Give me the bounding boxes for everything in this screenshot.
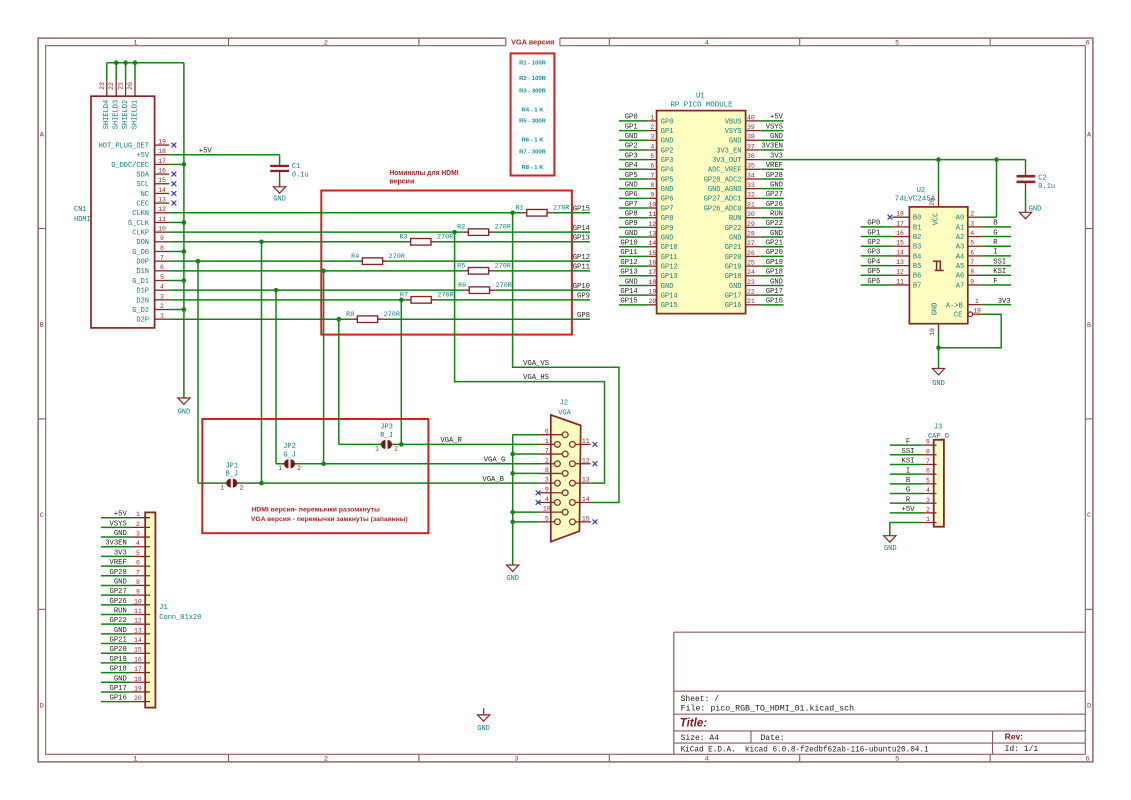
svg-text:GP17: GP17 [766,288,783,296]
svg-text:File: pico_RGB_TO_HDMI_01.kica: File: pico_RGB_TO_HDMI_01.kicad_sch [681,705,855,714]
svg-text:7: 7 [545,448,549,455]
wires J3 with net labels [890,438,922,514]
svg-text:GP15: GP15 [620,298,637,306]
wire +5V from CN1 pin 18 [169,155,279,164]
svg-text:B5: B5 [913,263,921,271]
svg-text:GP20: GP20 [725,254,742,262]
svg-text:R5 - 300R: R5 - 300R [519,118,547,124]
svg-text:GP10: GP10 [620,240,637,248]
svg-text:A1: A1 [956,224,964,232]
svg-text:A7: A7 [956,282,964,290]
svg-text:15: 15 [158,177,166,184]
svg-text:7: 7 [926,458,930,465]
svg-text:6: 6 [545,428,549,435]
svg-text:8: 8 [136,579,140,586]
svg-text:GP21: GP21 [110,637,127,645]
svg-text:GND: GND [477,725,490,733]
svg-text:270R: 270R [496,282,512,290]
annotation box jumpers note [202,419,428,533]
svg-text:22: 22 [108,82,115,90]
svg-text:GND: GND [661,234,674,242]
svg-text:J1: J1 [159,604,167,612]
svg-text:GP8: GP8 [661,215,674,223]
svg-text:JP2: JP2 [283,443,296,451]
svg-text:R6: R6 [458,282,466,290]
svg-text:13: 13 [158,197,166,204]
svg-text:GP11: GP11 [661,254,678,262]
svg-text:2: 2 [650,124,654,131]
svg-text:+5V: +5V [902,506,916,514]
resistor R8 270R [346,311,400,323]
svg-text:1: 1 [220,484,224,491]
svg-text:D: D [40,702,44,710]
wire GP9 net row (CN1 to resistor to label) [169,298,590,303]
svg-text:9: 9 [926,439,930,446]
svg-text:GP10: GP10 [573,283,590,291]
svg-text:14: 14 [158,187,166,194]
svg-text:12: 12 [896,269,904,276]
svg-text:KSI: KSI [993,268,1006,276]
svg-text:GP5: GP5 [661,176,674,184]
svg-text:VREF: VREF [110,559,127,567]
svg-text:15: 15 [134,647,142,654]
svg-text:GP6: GP6 [625,191,638,199]
jumper JP3 R_J [375,424,398,453]
wire GP13 net row (CN1 to resistor to label) [169,240,590,245]
resistor R7 270R [400,291,454,303]
svg-text:19: 19 [648,289,656,296]
svg-text:25: 25 [747,260,755,267]
svg-text:3V3EN: 3V3EN [761,143,783,151]
svg-text:SSI: SSI [902,448,915,456]
svg-text:GP7: GP7 [625,201,638,209]
svg-text:32: 32 [747,192,755,199]
svg-text:VGA версия: VGA версия [511,38,554,47]
svg-text:GP8: GP8 [577,312,590,320]
svg-text:GP27: GP27 [110,588,127,596]
svg-text:JP3: JP3 [380,424,393,432]
svg-text:GP9: GP9 [577,293,590,301]
ground GND (free power flag, bottom middle) [477,708,490,733]
svg-text:5: 5 [926,477,930,484]
wire VGA_HS net (CLKP to J2 pin13) [455,232,605,483]
svg-text:GP12: GP12 [573,254,590,262]
svg-text:17: 17 [158,158,166,165]
svg-text:G: G [906,487,910,495]
svg-text:R8 - 1 K: R8 - 1 K [522,165,545,171]
svg-text:VBUS: VBUS [725,118,742,126]
svg-text:19: 19 [973,308,981,315]
svg-text:GP5: GP5 [867,268,880,276]
svg-text:37: 37 [747,143,755,150]
svg-text:15: 15 [896,240,904,247]
svg-text:31: 31 [747,201,755,208]
svg-text:VGA: VGA [558,410,571,418]
svg-text:GP2: GP2 [661,147,674,155]
svg-text:VCC: VCC [933,213,941,226]
svg-text:GP5: GP5 [625,172,638,180]
svg-text:GP26: GP26 [110,598,127,606]
svg-text:GP4: GP4 [661,167,674,175]
wire GP15 net row (CN1 to resistor to label) [169,210,590,215]
svg-text:GP14: GP14 [620,288,637,296]
svg-text:0.1u: 0.1u [292,171,309,179]
svg-text:3: 3 [926,497,930,504]
svg-text:GP18: GP18 [766,269,783,277]
connector CN1 HDMI [74,81,169,328]
svg-text:ADC_VREF: ADC_VREF [708,167,742,175]
svg-text:B: B [1087,322,1091,330]
svg-text:GP18: GP18 [725,273,742,281]
ground GND (J3) [884,536,897,553]
svg-text:GP17: GP17 [725,293,742,301]
svg-text:2: 2 [297,465,301,472]
wire GP14 net row (CN1 to resistor to label) [169,230,590,235]
svg-text:GP16: GP16 [766,298,783,306]
svg-text:18: 18 [134,676,142,683]
wire VGA_R net (D2N/D2P to JP3 to J2 pin1) [339,300,539,447]
svg-text:9: 9 [970,278,974,285]
svg-text:GP3: GP3 [867,249,880,257]
svg-text:12: 12 [582,457,590,464]
svg-text:G_D0: G_D0 [132,249,149,257]
svg-text:26: 26 [747,250,755,257]
svg-text:7: 7 [160,255,164,262]
svg-text:SHIELD1: SHIELD1 [131,100,139,129]
svg-text:GP16: GP16 [110,695,127,703]
wires U2 A-side with net labels B,G,R,I,SSI,KSI,F [981,220,1011,286]
svg-text:NC: NC [141,191,149,199]
no-connect flags J2 pins 9,4,11,12,15 [536,442,598,524]
svg-text:C: C [1087,512,1091,520]
svg-text:KSI: KSI [902,458,915,466]
svg-text:10: 10 [648,201,656,208]
svg-text:I: I [906,467,910,475]
svg-text:GP2: GP2 [867,239,880,247]
svg-text:B4: B4 [913,253,921,261]
svg-text:I: I [993,249,997,257]
svg-text:2: 2 [394,446,398,453]
svg-text:27: 27 [747,240,755,247]
svg-text:GP22: GP22 [766,220,783,228]
svg-text:SHIELD2: SHIELD2 [122,100,130,129]
svg-text:GND: GND [114,675,127,683]
svg-text:GND: GND [506,575,519,583]
svg-text:9: 9 [545,486,549,493]
svg-text:CEC: CEC [136,201,149,209]
svg-text:D0P: D0P [136,259,149,267]
svg-text:SCL: SCL [136,181,149,189]
svg-text:GP19: GP19 [725,264,742,272]
svg-text:2: 2 [240,484,244,491]
svg-text:GP1: GP1 [867,229,880,237]
svg-text:C1: C1 [292,163,300,171]
svg-text:VGA версия - перемычки замкнут: VGA версия - перемычки замкнуты (запаянн… [251,516,408,523]
svg-text:G_J: G_J [283,451,296,459]
svg-text:VREF: VREF [766,162,783,170]
svg-text:36: 36 [747,153,755,160]
svg-text:8: 8 [926,448,930,455]
svg-text:B2: B2 [913,234,921,242]
svg-text:VSYS: VSYS [766,123,783,131]
svg-text:R4: R4 [351,253,359,261]
svg-text:R1: R1 [516,204,524,212]
svg-text:Size: A4: Size: A4 [681,734,720,743]
svg-text:GP19: GP19 [110,656,127,664]
svg-text:HDMI: HDMI [74,216,91,224]
svg-text:+5V: +5V [136,152,149,160]
svg-text:15: 15 [582,515,590,522]
svg-text:R2: R2 [457,224,465,232]
svg-text:5: 5 [136,550,140,557]
svg-text:1: 1 [926,516,930,523]
svg-text:GP27_ADC1: GP27_ADC1 [704,196,742,204]
svg-text:Date:: Date: [761,734,785,743]
svg-text:GND: GND [273,196,286,204]
svg-text:R8: R8 [346,311,354,319]
svg-text:5: 5 [895,755,899,763]
svg-text:4: 4 [705,39,709,47]
svg-text:4: 4 [705,755,709,763]
svg-text:20: 20 [134,695,142,702]
svg-text:19: 19 [134,685,142,692]
svg-text:SHIELD3: SHIELD3 [113,100,121,129]
svg-text:1: 1 [133,39,137,47]
svg-text:GP28: GP28 [110,569,127,577]
svg-text:GND: GND [932,303,940,316]
svg-text:33: 33 [747,182,755,189]
svg-text:J3: J3 [934,424,942,432]
svg-text:GND: GND [625,278,638,286]
svg-text:40: 40 [747,114,755,121]
svg-text:28: 28 [747,230,755,237]
svg-text:29: 29 [747,221,755,228]
wires U1 right pins with net labels [760,114,783,306]
svg-text:D1P: D1P [136,288,149,296]
svg-text:GND: GND [770,278,783,286]
svg-text:G_DDC/CEC: G_DDC/CEC [111,162,149,170]
annotation box HDMI version resistor values [321,191,572,335]
svg-text:9: 9 [160,235,164,242]
svg-text:GP4: GP4 [625,162,638,170]
svg-text:4: 4 [545,496,549,503]
resistor R6 270R [458,282,512,294]
resistor R3 270R [399,233,453,245]
svg-text:0.1u: 0.1u [1038,183,1055,191]
svg-text:GP13: GP13 [661,273,678,281]
svg-text:5: 5 [650,153,654,160]
svg-text:23: 23 [747,279,755,286]
IC U1 RP PICO MODULE [648,92,760,313]
svg-text:R3 - 300R: R3 - 300R [519,88,547,94]
svg-text:+5V: +5V [199,148,213,156]
svg-text:21: 21 [118,82,125,90]
svg-text:R1 - 100R: R1 - 100R [519,60,547,66]
svg-text:D1N: D1N [136,268,149,276]
svg-text:3: 3 [136,531,140,538]
svg-text:SHIELD4: SHIELD4 [103,100,111,129]
svg-text:4: 4 [926,487,930,494]
svg-text:4: 4 [136,540,140,547]
wire GP11 net row (CN1 to resistor to label) [169,269,590,274]
svg-text:GP9: GP9 [625,220,638,228]
svg-text:8: 8 [160,245,164,252]
svg-text:3: 3 [160,293,164,300]
svg-text:GP9: GP9 [661,225,674,233]
svg-text:2: 2 [545,457,549,464]
svg-text:+5V: +5V [114,511,128,519]
svg-text:17: 17 [134,666,142,673]
svg-text:14: 14 [648,240,656,247]
svg-text:6: 6 [1086,755,1090,763]
resistor R4 270R [351,253,405,265]
wire shield bus to GND [107,60,184,80]
wire U2 GND pin 10 down [936,332,941,368]
IC U2 74LVC245A [892,187,981,336]
connector J1 Conn_01x20 [131,511,202,707]
no-connect flag U2 pin 18 (B0) [888,215,893,220]
svg-text:B6: B6 [913,273,921,281]
ground GND (C1) [273,187,286,204]
svg-text:GND: GND [661,186,674,194]
svg-text:D: D [1087,702,1091,710]
svg-text:1: 1 [136,511,140,518]
svg-text:RUN: RUN [729,215,742,223]
wire GP8 net row (CN1 to resistor to label) [169,317,590,322]
svg-text:версии: версии [389,179,414,186]
svg-text:24: 24 [747,269,755,276]
svg-text:VGA_HS: VGA_HS [523,374,549,382]
svg-text:CAP_O: CAP_O [928,433,949,441]
svg-text:GP0: GP0 [867,220,880,228]
svg-text:GND: GND [770,181,783,189]
svg-text:3: 3 [514,755,518,763]
annotation box VGA version resistor values table [511,53,555,175]
svg-text:GP19: GP19 [766,259,783,267]
capacitor C2 0.1u [1017,160,1056,213]
svg-text:C2: C2 [1038,175,1046,183]
svg-text:R: R [993,239,998,247]
wire VGA_B net (DON/D0P to JP1 to J2 pin3) [198,242,539,486]
svg-text:2: 2 [136,521,140,528]
svg-text:38: 38 [747,134,755,141]
svg-text:GP13: GP13 [573,235,590,243]
svg-text:11: 11 [582,438,590,445]
svg-text:1: 1 [375,446,379,453]
wire GND vertical (CN1 ground pins) [169,63,186,398]
svg-text:GP26_ADC0: GP26_ADC0 [704,205,742,213]
svg-text:14: 14 [134,637,142,644]
svg-text:A4: A4 [956,253,964,261]
svg-text:GP1: GP1 [625,123,638,131]
svg-text:GP15: GP15 [661,302,678,310]
svg-text:270R: 270R [384,311,400,319]
svg-text:GND: GND [625,181,638,189]
svg-text:GP22: GP22 [110,617,127,625]
svg-text:18: 18 [158,148,166,155]
svg-text:4: 4 [970,230,974,237]
svg-text:GND_AGND: GND_AGND [708,186,742,194]
svg-text:13: 13 [134,627,142,634]
svg-text:4: 4 [160,284,164,291]
svg-text:GP16: GP16 [725,302,742,310]
svg-text:GP11: GP11 [620,249,637,257]
svg-text:B: B [993,220,998,228]
svg-text:B: B [906,477,911,485]
svg-text:2: 2 [970,211,974,218]
svg-text:270R: 270R [389,253,405,261]
wires J1 with net labels [101,511,131,703]
svg-text:5: 5 [545,515,549,522]
svg-text:U1: U1 [696,92,705,100]
svg-text:2: 2 [160,303,164,310]
svg-text:10: 10 [929,328,936,336]
svg-text:6: 6 [1086,39,1090,47]
svg-text:A0: A0 [956,215,964,223]
svg-text:R7 - 300R: R7 - 300R [519,150,547,156]
svg-text:D2N: D2N [136,297,149,305]
svg-text:13: 13 [648,230,656,237]
svg-text:19: 19 [158,138,166,145]
svg-text:GND: GND [932,380,945,388]
svg-text:3: 3 [545,477,549,484]
svg-text:GP4: GP4 [867,258,880,266]
svg-text:HDMI версия- перемычки разомкн: HDMI версия- перемычки разомкнуты [251,506,380,513]
svg-text:16: 16 [158,167,166,174]
svg-text:1: 1 [545,438,549,445]
svg-text:GND: GND [114,578,127,586]
svg-text:GP15: GP15 [573,206,590,214]
svg-text:3: 3 [650,134,654,141]
svg-text:J2: J2 [560,400,568,408]
svg-text:D2P: D2P [136,317,149,325]
svg-text:GP28: GP28 [766,172,783,180]
svg-text:GP12: GP12 [661,264,678,272]
svg-text:JP1: JP1 [225,462,238,470]
svg-text:GP14: GP14 [573,225,590,233]
svg-text:11: 11 [134,608,142,615]
svg-text:13: 13 [582,477,590,484]
svg-text:B3: B3 [913,244,921,252]
svg-text:20: 20 [127,82,134,90]
ground GND (U2) [932,369,945,388]
ground GND (J2) [506,565,519,583]
wire U2 pin1 with net label 3V3 [981,298,1011,306]
svg-text:39: 39 [747,124,755,131]
svg-text:GP11: GP11 [573,264,590,272]
svg-text:C: C [40,512,44,520]
svg-text:5: 5 [895,39,899,47]
svg-text:GP6: GP6 [867,278,880,286]
svg-text:R4 - 1 K: R4 - 1 K [522,107,545,113]
svg-text:GND: GND [884,545,897,553]
svg-text:8: 8 [650,182,654,189]
svg-text:VGA_B: VGA_B [482,476,504,484]
svg-text:2: 2 [926,506,930,513]
svg-text:GND: GND [625,230,638,238]
svg-text:10: 10 [543,506,551,513]
svg-text:GND: GND [178,409,191,417]
svg-text:14: 14 [582,496,590,503]
svg-text:7: 7 [970,259,974,266]
svg-text:16: 16 [896,230,904,237]
svg-text:6: 6 [136,560,140,567]
svg-text:GP14: GP14 [661,293,678,301]
svg-text:18: 18 [648,279,656,286]
svg-text:3V3_EN: 3V3_EN [716,147,741,155]
svg-text:14: 14 [896,249,904,256]
svg-text:B1: B1 [913,224,921,232]
